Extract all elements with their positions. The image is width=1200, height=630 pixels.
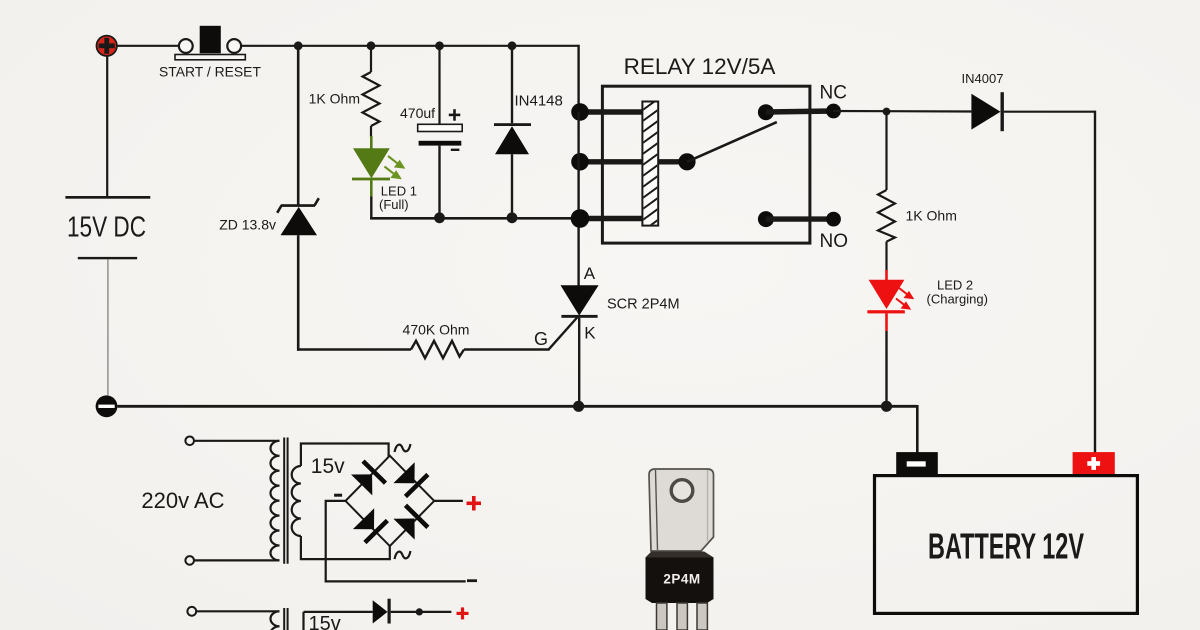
LED LED2 red	[867, 270, 904, 406]
svg-text:2P4M: 2P4M	[663, 572, 700, 587]
battery 15V DC top plate	[65, 196, 150, 199]
relay pin 3 stub	[580, 216, 642, 221]
svg-text:15V DC: 15V DC	[67, 212, 146, 244]
node junction T2 output	[416, 608, 423, 615]
LED LED1 green	[352, 136, 390, 219]
transformer T1 core	[284, 438, 287, 564]
transformer T1 primary terminal bottom	[185, 556, 194, 565]
svg-text:START / RESET: START / RESET	[159, 64, 261, 80]
node relay NC contact	[758, 104, 774, 120]
bridge rectifier diamond	[346, 456, 435, 546]
svg-text:1K Ohm: 1K Ohm	[309, 91, 360, 107]
node minus terminal (-)	[96, 395, 118, 417]
svg-text:RELAY 12V/5A: RELAY 12V/5A	[624, 54, 776, 79]
wire zener to 470K resistor	[297, 348, 411, 350]
node relay common pole	[678, 153, 695, 170]
transformer T2 primary coil (partial)	[270, 611, 279, 630]
wire T2 secondary vertical	[302, 612, 304, 630]
svg-text:LED 2: LED 2	[937, 278, 973, 293]
node relay NO contact	[758, 211, 774, 227]
svg-text:IN4148: IN4148	[515, 93, 563, 110]
transformer T1 primary coil	[270, 441, 279, 561]
wire 15V DC negative lead (thin gray)	[107, 259, 109, 395]
AC squiggle top	[395, 444, 411, 452]
wire bus down to battery minus	[916, 405, 919, 453]
bridge diode bottom-right	[393, 504, 430, 540]
relay NC stub	[766, 111, 834, 112]
wire down to relay pin 1	[577, 45, 579, 112]
relay switch arm	[687, 122, 777, 162]
wire right rail to battery plus	[1094, 111, 1096, 453]
node junction IN4148 branch	[508, 41, 517, 50]
relay pin 2 stub	[580, 159, 642, 164]
wire 470K to gate	[464, 348, 549, 350]
wire ground bus	[117, 405, 917, 408]
relay NO stub	[766, 216, 834, 221]
label T2 plus	[457, 607, 469, 619]
svg-text:SCR 2P4M: SCR 2P4M	[607, 297, 680, 313]
node NO external	[826, 212, 841, 227]
node NC external	[826, 104, 841, 119]
node junction IN4148 on sub-bus	[507, 212, 518, 223]
node junction SCR cathode on bus	[573, 401, 584, 412]
wire T1 primary top	[194, 440, 280, 442]
transformer T1 primary terminal top	[185, 437, 194, 446]
node junction R1 branch	[367, 41, 376, 50]
transformer T2 core	[284, 608, 287, 630]
bridge diode top-right	[393, 462, 430, 498]
node junction cap on sub-bus	[434, 212, 445, 223]
svg-text:K: K	[584, 324, 596, 343]
bridge minus mark at left corner	[334, 494, 342, 497]
battery plus terminal	[1073, 452, 1115, 476]
svg-text:G: G	[534, 329, 548, 349]
battery 15V DC bottom plate	[78, 257, 137, 259]
label bridge minus	[467, 579, 477, 582]
node relay pin 1	[571, 103, 589, 121]
node relay pin 3	[571, 209, 590, 228]
diode D3 IN4007	[971, 92, 1095, 131]
battery BATTERY 12V box	[875, 476, 1138, 614]
wire T2 primary	[196, 610, 279, 612]
relay K1 box	[602, 86, 810, 243]
diode D4 T2	[373, 599, 452, 624]
SCR package 2P4M photo	[646, 469, 714, 630]
capacitor C1 470uf	[418, 46, 463, 218]
diode D1 IN4148	[494, 46, 531, 218]
capacitor plus sign	[449, 109, 461, 121]
wire gate diagonal	[548, 317, 578, 351]
relay pole stub	[658, 159, 687, 164]
bridge diode bottom-left	[352, 508, 389, 544]
node junction zener branch	[294, 41, 303, 50]
wire plus terminal to push button	[117, 45, 179, 47]
svg-text:NC: NC	[820, 83, 847, 104]
svg-text:470uf: 470uf	[400, 105, 435, 121]
relay coil (hatched)	[640, 96, 662, 233]
svg-text:(Full): (Full)	[379, 197, 409, 212]
wire T1 secondary top to bridge	[301, 444, 389, 467]
wire NC to IN4007	[834, 110, 972, 113]
wire T2 secondary to diode	[304, 611, 373, 613]
svg-text:A: A	[584, 264, 596, 283]
wire bridge plus output	[434, 500, 463, 502]
label bridge plus	[467, 496, 482, 511]
node junction LED2 on bus	[881, 401, 892, 412]
svg-text:NO: NO	[820, 231, 849, 252]
resistor R2 470K Ohm	[411, 341, 464, 358]
wire T1 secondary bottom to bridge	[301, 536, 390, 559]
transformer T2 terminal	[187, 607, 196, 616]
push button START/RESET	[175, 26, 245, 60]
node relay pin 2	[571, 153, 589, 171]
svg-text:15v: 15v	[311, 455, 345, 478]
resistor R3 1K Ohm	[878, 112, 895, 272]
svg-text:IN4007: IN4007	[962, 71, 1004, 86]
wire bridge minus output	[326, 501, 466, 582]
node plus terminal (+)	[97, 36, 117, 56]
zener diode ZD 13.8v	[277, 46, 319, 351]
svg-text:15v: 15v	[309, 613, 341, 630]
svg-text:(Charging): (Charging)	[927, 292, 988, 307]
battery minus terminal	[896, 452, 938, 476]
AC squiggle bottom	[395, 551, 411, 559]
svg-text:BATTERY 12V: BATTERY 12V	[928, 526, 1084, 567]
battery 15V DC positive lead	[106, 56, 108, 196]
svg-text:220v AC: 220v AC	[141, 488, 224, 513]
bridge diode top-left	[350, 459, 387, 495]
LED1 light arrows	[385, 156, 404, 178]
SCR U1 2P4M	[561, 218, 599, 406]
node junction R3 branch	[883, 108, 891, 116]
transformer T1 secondary coil	[292, 466, 301, 536]
svg-text:ZD 13.8v: ZD 13.8v	[219, 217, 276, 233]
relay pin 1 stub	[580, 109, 642, 114]
svg-text:470K Ohm: 470K Ohm	[403, 322, 470, 338]
wire push button to relay column	[242, 45, 579, 47]
svg-text:1K Ohm: 1K Ohm	[906, 208, 957, 224]
resistor R1 1K Ohm	[363, 46, 380, 137]
capacitor minus sign	[451, 149, 460, 151]
node junction capacitor branch	[435, 41, 444, 50]
wire sub-bus LED1/cap/diode to relay pin3	[370, 217, 580, 220]
wire pin1-pin2-pin3 column	[577, 112, 579, 219]
LED2 light arrows	[896, 288, 912, 309]
wire T1 primary bottom	[194, 559, 280, 561]
